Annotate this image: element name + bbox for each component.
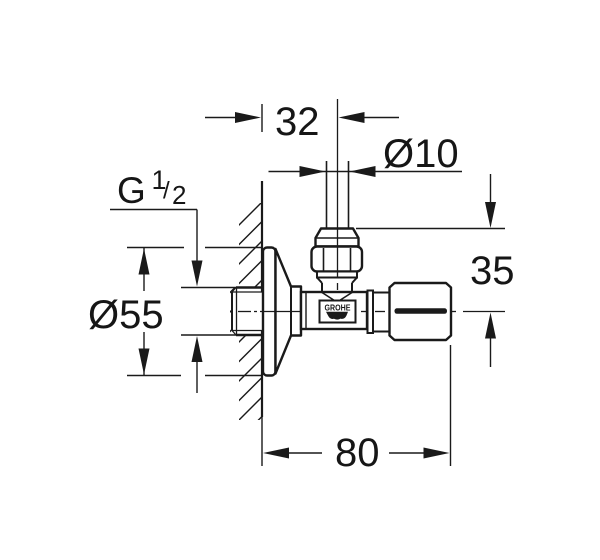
svg-text:Ø55: Ø55 bbox=[88, 293, 164, 337]
svg-text:35: 35 bbox=[470, 249, 515, 293]
svg-text:2: 2 bbox=[172, 180, 186, 210]
svg-text:80: 80 bbox=[335, 431, 380, 475]
svg-text:32: 32 bbox=[275, 100, 320, 144]
svg-text:G: G bbox=[117, 170, 146, 211]
svg-text:GROHE: GROHE bbox=[325, 303, 351, 313]
svg-text:/: / bbox=[163, 178, 170, 205]
svg-text:Ø10: Ø10 bbox=[383, 132, 459, 176]
